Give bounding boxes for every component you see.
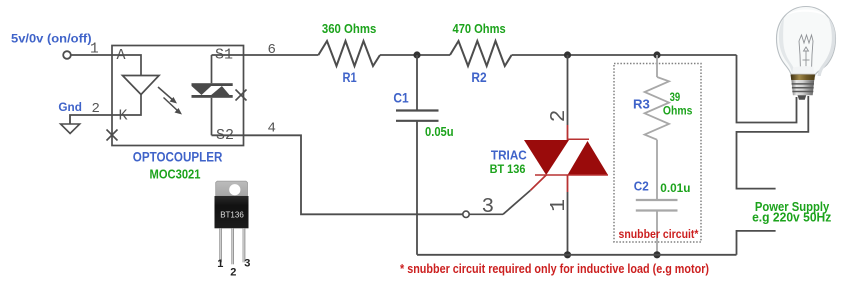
wire: gate horizontal to terminal <box>470 213 504 215</box>
node: input terminal circle <box>63 51 71 59</box>
lamp screw ridges <box>792 84 814 92</box>
node junction dot triac top <box>564 51 571 58</box>
node: gate open terminal circle <box>463 211 469 217</box>
wire: phototriac S1 lead <box>211 55 213 83</box>
svg-text:5v/0v (on/off): 5v/0v (on/off) <box>11 31 92 45</box>
svg-text:3: 3 <box>244 257 250 269</box>
TO-220 leg 3 <box>243 228 246 262</box>
ground symbol <box>61 124 80 134</box>
node junction dot after R1 <box>413 51 420 58</box>
phototriac left triangle <box>192 86 212 95</box>
X mark unused pin bottom-left <box>107 130 118 141</box>
svg-text:39: 39 <box>670 90 681 104</box>
svg-text:0.01u: 0.01u <box>660 181 690 195</box>
lamp glass inner shade left <box>779 18 796 76</box>
svg-text:0.05u: 0.05u <box>425 125 454 139</box>
wire: bottom rail <box>417 254 737 256</box>
snubber circuit dashed box <box>614 64 701 243</box>
phototriac symbol top bar <box>192 83 233 86</box>
lamp filament <box>799 35 813 71</box>
capacitor C1 <box>396 111 439 121</box>
resistor R1 zigzag <box>318 41 380 66</box>
svg-text:C2: C2 <box>634 179 649 194</box>
resistor R2 zigzag <box>450 41 512 66</box>
wire: snubber top node down to R3 <box>656 55 658 77</box>
svg-text:K: K <box>119 108 128 125</box>
svg-text:C1: C1 <box>393 90 408 106</box>
TO-220 body <box>215 196 249 228</box>
svg-text:BT136: BT136 <box>220 210 244 219</box>
op-amp U1: optocoupler box <box>112 46 244 146</box>
wire: gate red diagonal <box>530 175 546 190</box>
wire: top rail down at right to bulb <box>737 55 797 123</box>
svg-text:e.g 220v 50Hz: e.g 220v 50Hz <box>752 210 831 224</box>
wire: anode lead inside optocoupler <box>112 55 141 76</box>
svg-text:BT 136: BT 136 <box>490 162 526 176</box>
wire: gate wire to optocoupler pin4 <box>244 135 463 214</box>
lamp bottom contact <box>798 95 807 100</box>
wire: pin6 to R1 <box>244 54 319 56</box>
svg-text:3: 3 <box>482 196 495 219</box>
wire: cathode lead inside optocoupler <box>112 95 141 116</box>
LED emission arrow 2 <box>164 98 183 115</box>
wire: bulb return to power supply stub <box>737 96 809 189</box>
lamp brass collar <box>791 75 815 80</box>
lamp neck bright band <box>792 66 814 74</box>
svg-text:R1: R1 <box>343 69 357 85</box>
TO-220 leg 2 <box>231 228 234 264</box>
TO-220 tab hole <box>229 184 240 195</box>
wire: S1 to box edge <box>212 54 244 56</box>
svg-text:470 Ohms: 470 Ohms <box>453 22 506 36</box>
wire: C1 down to bottom rail <box>416 122 418 255</box>
svg-text:Gnd: Gnd <box>58 102 82 114</box>
wire: gate gray diagonal <box>503 190 530 214</box>
lamp: light bulb <box>777 7 836 100</box>
phototriac bottom bar <box>192 95 233 98</box>
svg-text:OPTOCOUPLER: OPTOCOUPLER <box>133 150 223 165</box>
lamp glass globe <box>777 7 836 77</box>
lamp screw base <box>791 80 814 95</box>
wire: R3 to C2 <box>656 140 658 200</box>
wire: node down to C1 <box>416 55 418 110</box>
node junction dot snubber top <box>653 51 660 58</box>
capacitor C2 <box>636 200 678 211</box>
svg-text:TRIAC: TRIAC <box>491 147 527 162</box>
svg-text:360 Ohms: 360 Ohms <box>322 22 376 36</box>
lamp glass inner shade right <box>818 17 836 76</box>
wire: phototriac S2 lead <box>211 98 213 136</box>
svg-text:MOC3021: MOC3021 <box>150 167 201 181</box>
lamp glass-brass seam <box>791 73 815 75</box>
TO-220 metal tab <box>216 181 248 196</box>
wire: R1 to node <box>380 54 450 56</box>
node junction dot snubber bottom <box>653 251 660 258</box>
wire: input to optocoupler pin1 <box>71 54 112 56</box>
resistor R3 vertical zigzag <box>645 77 669 140</box>
transistor package TO-220 BT136 photo <box>215 181 251 278</box>
diode D1: LED triangle of optocoupler <box>123 76 160 95</box>
triac bottom red bar <box>535 174 608 176</box>
wire: triac MT2 vertical red <box>567 125 569 140</box>
wire: triac MT2 vertical gray <box>567 55 569 125</box>
svg-text:4: 4 <box>268 121 276 137</box>
X mark unused pin right <box>236 90 247 101</box>
LED emission arrow 1 <box>158 87 177 104</box>
lamp glass top highlight <box>786 10 826 16</box>
wire: R2 to top rail right <box>512 54 737 56</box>
TO-220 leg 1 <box>219 228 222 262</box>
svg-text:R3: R3 <box>633 97 650 112</box>
node junction dot triac bottom <box>564 251 571 258</box>
wire: S2 to box edge <box>212 134 244 136</box>
svg-text:2: 2 <box>230 267 236 279</box>
wire: triac MT1 vertical gray to rail <box>567 192 569 255</box>
wire: triac MT1 vertical red <box>567 175 569 192</box>
phototriac right triangle <box>211 86 229 95</box>
triac Q1 left triangle <box>524 140 569 175</box>
triac Q1 right triangle <box>568 141 609 175</box>
svg-text:1: 1 <box>217 258 223 270</box>
svg-text:Ohms: Ohms <box>663 104 693 118</box>
svg-text:snubber circuit*: snubber circuit* <box>619 227 699 241</box>
wire: power supply lower stub to bottom rail <box>737 231 776 255</box>
wire: gnd to optocoupler pin2 <box>70 115 112 124</box>
svg-text:2: 2 <box>548 110 571 123</box>
svg-text:R2: R2 <box>471 69 486 85</box>
svg-text:* snubber circuit required onl: * snubber circuit required only for indu… <box>400 261 709 276</box>
svg-text:1: 1 <box>548 199 571 212</box>
wire: C2 down to bottom rail <box>656 211 658 255</box>
triac Q1 top red bar <box>568 138 590 140</box>
